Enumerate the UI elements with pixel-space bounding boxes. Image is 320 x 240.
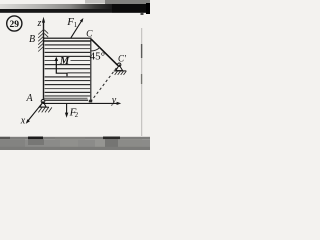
- support C' ground hatching: [115, 71, 127, 75]
- plate right edge: [90, 38, 91, 102]
- z axis arrowhead: [42, 17, 45, 23]
- svg-text:y: y: [111, 95, 117, 106]
- force F2 arrowhead: [65, 113, 68, 118]
- svg-text:29: 29: [10, 20, 20, 30]
- paper background: [0, 0, 150, 150]
- 45 degree arc: [91, 47, 100, 51]
- svg-text:B: B: [29, 34, 35, 45]
- support A ground line: [39, 106, 50, 108]
- support C' ground line: [114, 70, 127, 72]
- support A hinge circle: [41, 99, 45, 103]
- page right border line: [141, 28, 142, 136]
- wall hatching at B (right side short): [44, 30, 48, 37]
- support C' triangle: [116, 65, 123, 71]
- svg-text:2: 2: [75, 111, 79, 119]
- support C' hinge circle: [118, 63, 121, 66]
- y axis line: [43, 102, 119, 104]
- svg-text:C′: C′: [118, 54, 127, 64]
- x axis arrowhead: [26, 119, 30, 124]
- page bottom shadow band: [0, 139, 150, 150]
- svg-text:1: 1: [74, 21, 78, 29]
- dashed construction line corner to C': [91, 67, 118, 102]
- support A triangle: [40, 102, 46, 108]
- x axis line: [27, 103, 43, 122]
- svg-text:z: z: [37, 18, 42, 29]
- svg-text:C: C: [86, 29, 93, 39]
- y axis arrowhead: [117, 102, 122, 105]
- page bottom rule: [0, 137, 150, 139]
- force F2 line: [66, 104, 68, 115]
- plate bottom edge (double line): [44, 100, 89, 101]
- page top black rule: [0, 9, 150, 13]
- wall hatching at B (left side): [38, 30, 43, 52]
- plate hatching lines: [45, 44, 91, 96]
- force F1 line: [71, 20, 83, 38]
- support A ground hatching: [38, 107, 52, 112]
- figure number circle 29: [7, 16, 22, 31]
- svg-text:A: A: [25, 93, 33, 104]
- svg-text:x: x: [20, 116, 26, 127]
- force F1 arrowhead: [80, 18, 84, 22]
- rod C-C': [91, 39, 117, 65]
- plate top edge (double line): [44, 38, 92, 39]
- moment M bent arrow: [56, 58, 67, 76]
- white patch behind M label: [57, 57, 70, 64]
- svg-text:45°: 45°: [90, 50, 105, 62]
- moment M arrowhead: [55, 57, 59, 61]
- z axis line: [43, 21, 45, 104]
- plate corner junction blob: [89, 100, 92, 103]
- svg-text:M: M: [59, 56, 70, 67]
